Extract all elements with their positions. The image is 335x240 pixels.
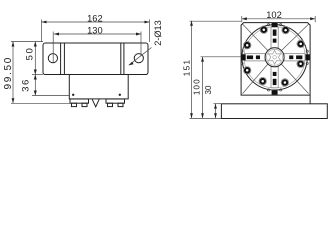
- svg-text:2-Ø13: 2-Ø13: [153, 20, 163, 46]
- svg-text:102: 102: [266, 10, 282, 20]
- svg-text:162: 162: [87, 13, 103, 23]
- svg-text:130: 130: [87, 25, 103, 35]
- svg-text:100: 100: [192, 78, 201, 95]
- svg-text:50: 50: [25, 47, 36, 61]
- svg-text:99.50: 99.50: [3, 56, 14, 90]
- svg-text:36: 36: [21, 78, 32, 92]
- svg-text:151: 151: [183, 59, 192, 77]
- svg-text:30: 30: [204, 85, 213, 94]
